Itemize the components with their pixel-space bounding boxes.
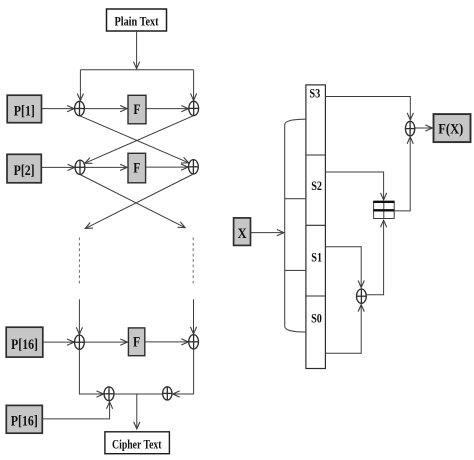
svg-text:S0: S0 [311,312,322,326]
svg-text:Cipher Text: Cipher Text [112,438,162,452]
svg-text:P[16]: P[16] [11,413,38,429]
wire B16 down and into xor C2 [173,349,194,394]
wire cross B2 down left [85,174,193,228]
block P[1] [7,95,41,123]
block P[16] final key [6,405,42,433]
wire junction down to Cipher Text [136,394,138,429]
svg-text:P[1]: P[1] [14,104,35,120]
sbox column rectangle [306,85,326,369]
brace tick lower [285,269,306,271]
xor B1 [189,101,199,115]
wire S3 out into xor R1 [325,97,410,120]
xor R2 [357,289,367,303]
wire P[1] to xor A1 [42,108,75,110]
wire F round 1 to xor B1 [146,108,188,110]
svg-text:P[16]: P[16] [11,337,38,353]
svg-text:S3: S3 [309,86,320,100]
wire between xor C1 and xor C2 [114,393,162,395]
wire S0 out up into xor R2 [325,305,361,354]
sbox divider S2/S1 [306,224,326,226]
wire cross A1 to B2 [80,116,189,163]
wire F round 2 to xor B2 [146,166,188,168]
wire right drop into xor B16 [193,299,195,333]
xor B2 [189,160,199,174]
sbox divider S1/S0 [306,295,326,297]
wire xor R2 up into register [366,220,383,294]
brace tick upper [285,198,306,200]
svg-text:F: F [133,335,140,351]
box Plain Text [107,9,167,31]
svg-text:Plain Text: Plain Text [115,14,160,28]
svg-text:F(X): F(X) [438,122,463,138]
xor A16 [75,335,85,349]
wire left branch into xor A1 [79,70,81,101]
wire left drop into xor A16 [78,299,80,334]
block P[16] round key [6,327,43,357]
svg-text:X: X [238,226,247,242]
svg-text:P[2]: P[2] [14,163,35,179]
wire dashed left ellipsis [78,238,80,286]
block X input [234,218,251,246]
F box round 16 [128,328,144,356]
block P[2] [7,154,41,183]
brace fan-out bracket [285,119,306,332]
F box round 1 [128,95,146,124]
register table block [373,202,394,219]
wire S1 out into xor R2 [325,247,361,288]
svg-text:S1: S1 [311,251,322,265]
xor C2 output combiner right [163,387,172,400]
wire xor R1 to F(X) [415,127,432,129]
sbox divider S3/S2 [306,154,326,156]
wire S2 out into register [325,172,383,200]
xor C1 output combiner left [104,387,114,401]
block F(X) output [434,114,471,142]
box Cipher Text [105,432,169,454]
wire Plain Text down to split bar [136,31,138,69]
svg-text:F: F [133,161,140,177]
wire xor A16 to F round 16 [84,341,127,343]
xor R1 [405,121,414,136]
wire A16 down and into xor C1 [79,349,103,394]
wire X into brace [251,232,284,234]
wire cross A2 down right [80,175,185,228]
wire right branch into xor B1 [193,70,195,101]
wire cross B1 to A2 [85,116,194,164]
wire P[2] to xor A2 [41,166,74,168]
wire F round 16 to xor B16 [145,341,188,343]
wire xor A1 to F round 1 [84,108,127,110]
xor B16 [189,335,199,349]
wire P[16] final key up into xor C1 [42,402,109,419]
xor A1 [75,101,85,115]
wire register out up into xor R1 [394,137,410,211]
svg-text:S2: S2 [311,179,322,193]
wire dashed right ellipsis [192,238,194,286]
wire xor A2 to F round 2 [85,166,127,168]
wire P[16] to xor A16 [43,341,74,343]
xor A2 [75,160,85,174]
wire top split bar [80,69,193,71]
F box round 2 [128,153,146,183]
svg-text:F: F [133,102,140,118]
